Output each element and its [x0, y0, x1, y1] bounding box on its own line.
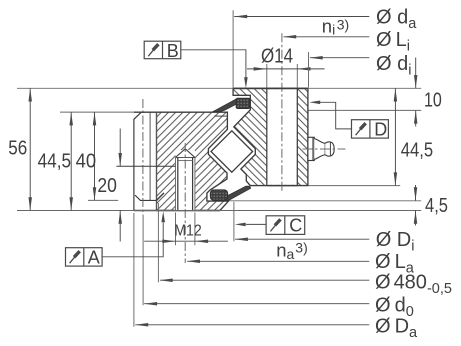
svg-text:44,5: 44,5: [38, 151, 72, 173]
extension line: inner ring bottom face to the right: [309, 185, 401, 187]
extension line for Ø d_a (top of inner ring inner edge): [232, 10, 234, 87]
leader Ø D_i: [235, 237, 370, 241]
extension line for Ø D_a (outer diameter): [133, 213, 135, 327]
dimension 4,5 (seating face offset): [414, 185, 418, 226]
leader Ø L_a (bolt circle of M12 holes): [187, 260, 369, 264]
svg-text:C: C: [289, 215, 302, 235]
svg-text:M12: M12: [174, 223, 202, 240]
dimension 44,5 (inner ring height, right): [394, 88, 398, 185]
extension tick for 40 dimension: [88, 199, 118, 201]
centerline of M12 hole: [184, 143, 186, 263]
svg-text:44,5: 44,5: [401, 140, 433, 162]
grease nipple on inner ring outer face: [308, 137, 334, 160]
extension line: bottom face (full width): [17, 210, 421, 212]
dimension M12 (tapped hole): [144, 213, 228, 246]
svg-text:20: 20: [97, 175, 117, 197]
svg-text:56: 56: [8, 137, 27, 159]
svg-text:4,5: 4,5: [425, 195, 448, 217]
dimension Ø14: [247, 64, 325, 88]
centerline of bolt-hole column in outer ring: [142, 99, 144, 215]
extension line for Ø d_i (inner ring bore): [308, 52, 310, 88]
extension line: inner ring top face (full width): [17, 87, 421, 89]
svg-text:D: D: [374, 120, 387, 140]
upper seal (in inner ring groove, lip on outer ring top face): [212, 98, 250, 112]
dimension 10 (top face offset): [414, 58, 418, 127]
outer ring left-hand bolt-hole column (unhatched): [134, 112, 220, 210]
dimension 44,5 (outer ring height, left): [69, 112, 73, 210]
svg-text:40: 40: [76, 151, 97, 173]
outer ring (left, sectioned): [157, 112, 229, 210]
datum flag C (seating face of outer ring): [235, 216, 305, 235]
datum flag D (inner ring outer face): [309, 101, 388, 139]
lubrication hole line (20 mm above seating face): [116, 165, 175, 167]
fixing hole Ø14 in inner ring (through hole): [267, 88, 298, 185]
datum flag A (bottom face of outer ring): [66, 211, 166, 266]
leader Ø d_i: [310, 56, 370, 60]
svg-text:Ø di: Ø di: [376, 53, 411, 79]
leader Ø L_i (bolt circle of Ø14 holes): [283, 35, 369, 39]
inner ring (right, sectioned): [233, 88, 308, 185]
leader Ø480 -0,5: [160, 278, 370, 282]
leader Ø D_a: [135, 323, 369, 327]
lower seal (in outer ring groove, lip on inner ring corner): [210, 186, 250, 200]
datum flag B (inner ring top face): [144, 41, 248, 88]
svg-text:Ø14: Ø14: [261, 45, 293, 67]
extension line for Ø480 (spigot diameter): [157, 203, 159, 282]
seal running step on outer ring top face: [215, 115, 228, 117]
extension line: seating face 4,5 above bottom: [229, 200, 421, 202]
extension tick at 10 mm below top: [309, 109, 422, 111]
svg-text:A: A: [88, 247, 100, 267]
centerline of Ø14 hole: [281, 33, 283, 191]
leader Ø d_0 (raceway diameter): [144, 302, 369, 306]
dimension 20 (lubrication hole height): [118, 129, 122, 242]
dimension 56 (overall height): [28, 88, 32, 210]
svg-text:B: B: [167, 41, 179, 61]
dimension 40 (bolt hole depth): [93, 112, 97, 200]
crossed roller (square section): [211, 131, 253, 172]
leader Ø d_a: [234, 15, 369, 19]
M12 tapped hole in outer ring: [176, 149, 195, 211]
extension line: outer ring top face: [60, 111, 134, 113]
centerline of grease nipple: [303, 148, 346, 150]
svg-text:10: 10: [424, 90, 442, 112]
extension line for Ø D_i: [233, 202, 235, 242]
